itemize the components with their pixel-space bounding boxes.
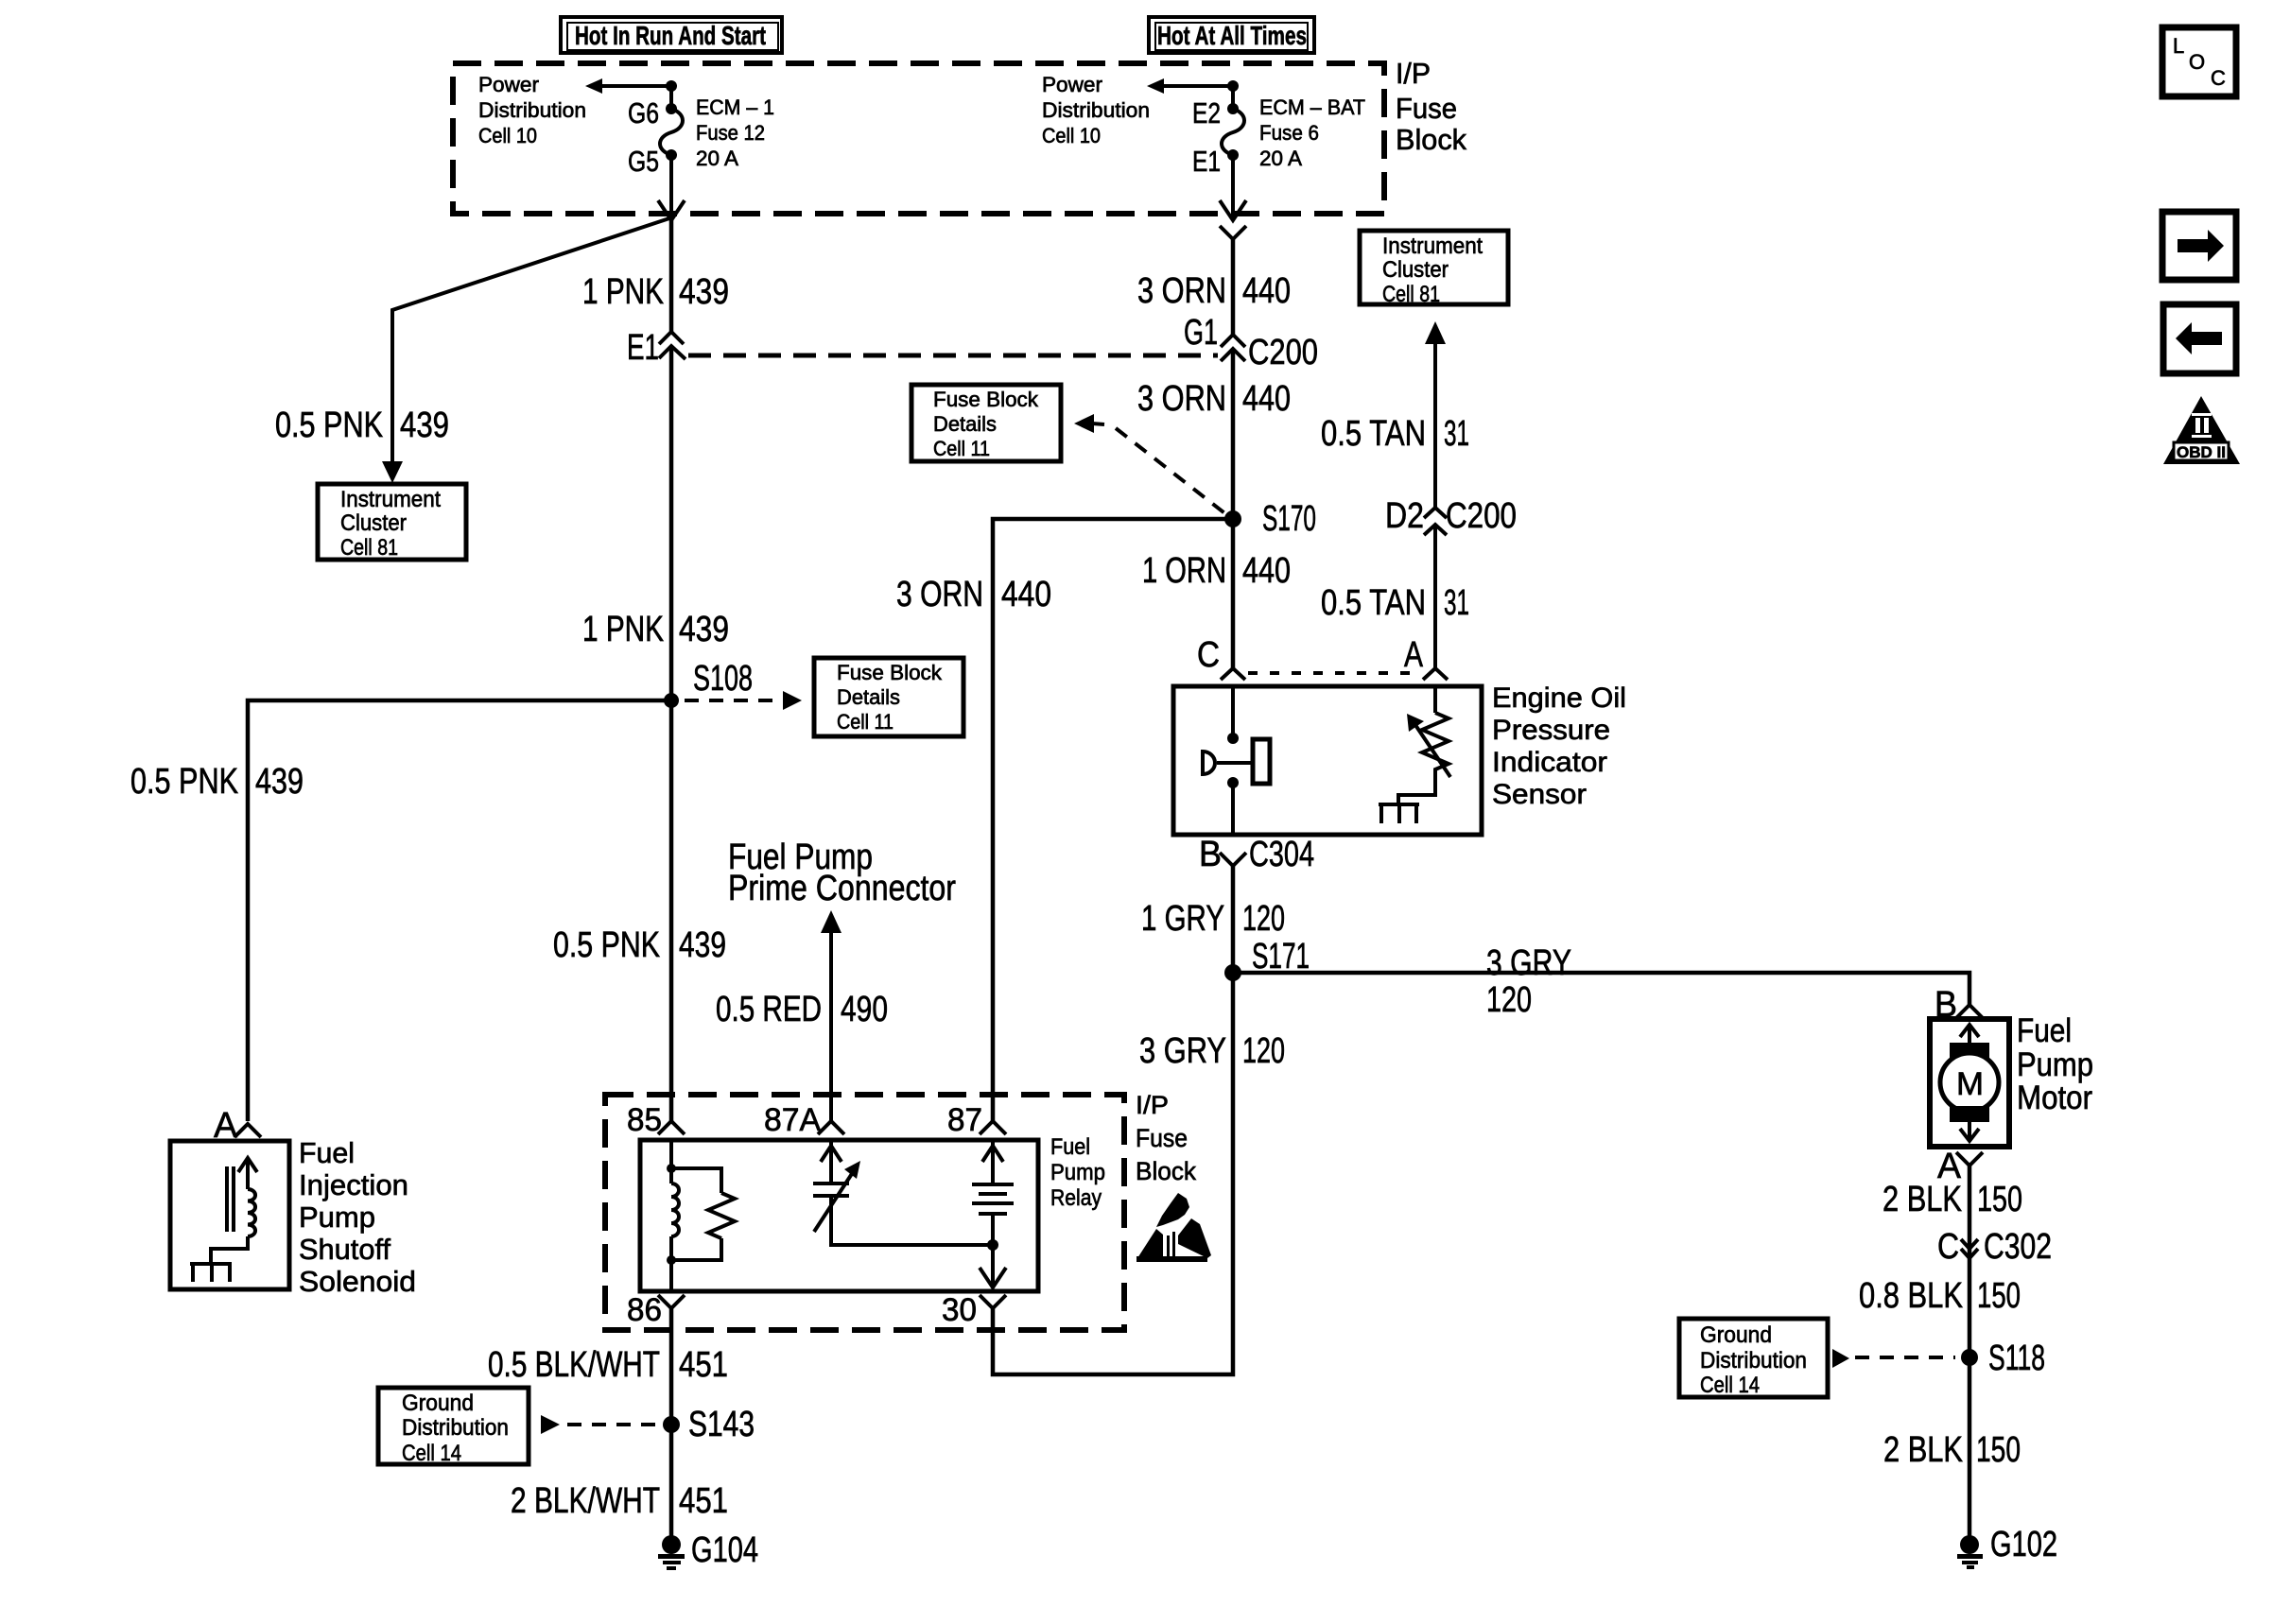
relay coil parallel resistor [671,1168,735,1260]
wire label 0.5 TAN 31 (lower) [1321,583,1469,623]
wire label 1 PNK 439 (lower) [582,610,729,649]
svg-text:G1: G1 [1184,313,1218,353]
legend right arrow box [2162,212,2236,280]
svg-text:440: 440 [1001,575,1051,614]
relay pin 87A [764,1102,844,1138]
svg-text:B: B [1199,835,1222,874]
svg-text:490: 490 [841,990,888,1029]
label Power Distribution Cell 10 (left) [478,73,586,147]
svg-text:Hot In Run And Start: Hot In Run And Start [575,21,766,50]
svg-text:439: 439 [679,610,729,649]
svg-text:Distribution: Distribution [1042,98,1150,122]
wire label 0.5 BLK/WHT 451 [488,1345,728,1385]
wire: S170 branch down to relay pin 87 [993,519,1225,1121]
svg-text:Ground: Ground [402,1391,474,1416]
svg-text:Pump: Pump [2017,1046,2093,1083]
label I/P Fuse Block (relay) [1136,1091,1196,1185]
wire label 3 GRY 120 (vertical run) [1139,1031,1285,1071]
wire: S108 down to relay pin 85 [669,700,674,1121]
wire: TAN up to instrument cluster arrow [1425,321,1446,510]
splice S108 [664,659,753,708]
svg-text:Block: Block [1136,1157,1196,1185]
wire label 3 GRY / 120 (horizontal run) [1486,943,1571,1020]
svg-text:439: 439 [400,406,449,445]
svg-text:G104: G104 [691,1530,758,1570]
relay movable contact (87A branch) [813,1140,992,1245]
wire label 3 ORN 440 (above C200) [1137,271,1291,311]
svg-text:Engine Oil: Engine Oil [1492,682,1626,714]
wire: 1 PNK 439 segment to E1 connector [669,220,674,333]
splice S143 [663,1405,755,1444]
svg-text:20 A: 20 A [1259,147,1302,170]
svg-text:150: 150 [1976,1430,2021,1470]
svg-text:D2: D2 [1385,496,1424,536]
connector G1 / C200 double chevron [1184,313,1318,372]
motor pin A [1937,1147,1983,1186]
ground G102 [1957,1525,2057,1569]
svg-text:G102: G102 [1990,1525,2057,1564]
svg-text:87: 87 [947,1102,982,1138]
svg-text:Hot At All Times: Hot At All Times [1157,21,1307,50]
svg-text:C: C [2211,66,2226,90]
svg-text:Distribution: Distribution [402,1415,509,1441]
solenoid case ground [190,1264,232,1282]
wire: feed arrow to power distribution (right) [1147,78,1239,94]
wire: 87A up to fuel pump prime connector arrow [821,910,842,1121]
wire: C200 down to S170 [1231,351,1236,519]
label Fuel Pump Motor [2017,1012,2093,1116]
splice S170 [1224,499,1316,539]
wire: S171 down and across to relay pin 30 [993,973,1233,1374]
ground G104 [658,1530,758,1570]
wire label 1 ORN 440 [1142,551,1291,591]
svg-text:Sensor: Sensor [1492,779,1587,810]
svg-text:Cell 14: Cell 14 [402,1441,461,1466]
svg-text:Solenoid: Solenoid [299,1265,416,1298]
svg-text:0.5 BLK/WHT: 0.5 BLK/WHT [488,1345,660,1385]
svg-text:0.5 PNK: 0.5 PNK [130,762,238,802]
svg-text:0.5 TAN: 0.5 TAN [1321,414,1426,454]
label ECM-1 Fuse 12 20 A [696,95,774,170]
dashed line C200 connector [688,354,1218,358]
svg-text:3 ORN: 3 ORN [1137,379,1226,419]
svg-text:E2: E2 [1192,96,1221,130]
svg-text:0.5 TAN: 0.5 TAN [1321,583,1426,623]
wire label 0.5 RED 490 [716,990,888,1029]
label ECM-BAT Fuse 6 20 A [1259,95,1365,170]
label Fuel Pump Relay [1050,1134,1105,1211]
svg-text:439: 439 [679,925,726,965]
svg-text:C304: C304 [1249,835,1314,874]
svg-text:440: 440 [1242,271,1291,311]
svg-text:2 BLK: 2 BLK [1883,1430,1963,1470]
title box: Hot In Run And Start [561,17,782,53]
svg-text:Fuse: Fuse [1396,92,1457,125]
wire: S171 to fuel pump motor [1233,973,1969,1005]
component box: Fuel Pump Relay [640,1140,1038,1291]
svg-text:Indicator: Indicator [1492,747,1607,778]
svg-text:C302: C302 [1984,1227,2052,1267]
svg-text:1 PNK: 1 PNK [582,610,664,649]
dashed pointer to S118 [1832,1349,1955,1368]
svg-text:0.5 PNK: 0.5 PNK [553,925,660,965]
wire: diagonal branch from fuse output to instrument cluster [382,218,669,483]
svg-text:OBD II: OBD II [2177,443,2226,461]
box: Fuse Block Details Cell 11 (lower) [814,658,963,736]
component box: Engine Oil Pressure Indicator Sensor [1173,686,1482,835]
svg-text:Cell 10: Cell 10 [1042,124,1101,147]
svg-text:C: C [1937,1227,1959,1267]
svg-text:120: 120 [1242,899,1285,939]
svg-text:Block: Block [1396,123,1466,156]
wire: motor A down to G102 [1968,1166,1972,1539]
svg-text:Ground: Ground [1700,1322,1772,1348]
svg-text:31: 31 [1444,583,1469,623]
svg-text:Fuse 6: Fuse 6 [1259,121,1319,145]
wire: fuse output down to G1/C200 [1231,239,1236,335]
wire label 0.5 TAN 31 (upper) [1321,414,1469,454]
legend left arrow box [2163,304,2236,373]
dashed connector face line C to A [1248,671,1420,675]
pin A of solenoid [214,1106,261,1146]
svg-text:E1: E1 [1192,145,1221,178]
svg-text:S170: S170 [1262,499,1316,539]
label Fuel Pump Prime Connector [728,838,956,908]
title box: Hot At All Times [1149,17,1314,53]
relay pin 87 [947,1102,1006,1138]
component box: Fuel Injection Pump Shutoff Solenoid [170,1141,289,1289]
svg-text:451: 451 [679,1481,728,1521]
svg-text:20 A: 20 A [696,147,738,170]
svg-text:S118: S118 [1988,1339,2045,1378]
wire label 2 BLK 150 (lower) [1883,1430,2021,1470]
box: Instrument Cluster Cell 81 (left) [318,484,466,561]
svg-text:0.5 RED: 0.5 RED [716,990,822,1029]
legend LOC box [2162,27,2236,96]
svg-text:Fuse Block: Fuse Block [933,388,1039,411]
svg-text:Fuse 12: Fuse 12 [696,121,765,145]
svg-text:150: 150 [1977,1180,2022,1219]
svg-text:0.5 PNK: 0.5 PNK [275,406,383,445]
I/P fuse block dashed box (relay) [605,1095,1124,1330]
box: Instrument Cluster Cell 81 (right) [1360,231,1508,307]
label Engine Oil Pressure Indicator Sensor [1492,682,1626,810]
wire label 1 PNK 439 (upper) [582,272,729,312]
wire: E1 down to dashed box edge with arrow [1220,155,1246,220]
wire: feed arrow to power distribution (left) [585,78,677,94]
box: Ground Distribution Cell 14 (left) [378,1388,529,1466]
svg-text:M: M [1956,1066,1984,1102]
svg-text:Injection: Injection [299,1168,408,1201]
svg-text:G6: G6 [628,96,659,130]
wire: 1 PNK 439 segment E1 to S108 [669,348,674,700]
svg-text:0.8 BLK: 0.8 BLK [1859,1276,1963,1316]
sensor pin B / C304 [1199,835,1314,874]
label Fuel Injection Pump Shutoff Solenoid [299,1136,416,1298]
svg-text:A: A [1404,635,1424,675]
svg-text:Cell 14: Cell 14 [1700,1373,1760,1398]
wire label 0.5 PNK 439 (solenoid branch) [130,762,304,802]
sensor variable resistor [1398,686,1450,804]
svg-text:87A: 87A [764,1102,821,1138]
sensor pin C [1197,635,1245,680]
svg-text:E1: E1 [627,328,659,368]
sensor pressure switch [1203,686,1270,835]
wire label 3 ORN 440 (pin 87 branch) [896,575,1051,614]
svg-text:150: 150 [1977,1276,2021,1316]
svg-text:Details: Details [837,685,900,709]
ESD warning symbol [1136,1193,1211,1262]
svg-text:O: O [2189,50,2205,74]
component box: Fuel Pump Motor [1930,1019,2009,1147]
svg-text:440: 440 [1242,551,1291,591]
svg-text:85: 85 [627,1102,662,1138]
relay coil branch [667,1140,679,1291]
wire label 2 BLK/WHT 451 [511,1481,728,1521]
label I/P Fuse Block (top right) [1396,57,1466,156]
wire label 0.8 BLK 150 [1859,1276,2021,1316]
svg-text:G5: G5 [628,145,659,178]
connector C / C302 double chevron down [1937,1227,2052,1267]
wire: D2 down to sensor pin A [1433,526,1437,667]
wire: S170 down to sensor pin C [1231,519,1236,668]
svg-text:S171: S171 [1252,937,1310,976]
wire: sensor B down to S171 [1231,866,1236,973]
svg-text:1 PNK: 1 PNK [582,272,664,312]
svg-text:Distribution: Distribution [1700,1348,1807,1373]
svg-text:Cell 81: Cell 81 [340,535,398,561]
wire label 0.5 PNK 439 (relay branch) [553,925,726,965]
svg-text:Pump: Pump [299,1201,375,1234]
svg-text:439: 439 [255,762,304,802]
relay pin 85 [627,1102,685,1138]
svg-text:Cell 11: Cell 11 [933,437,990,460]
svg-text:Relay: Relay [1050,1185,1102,1211]
svg-text:Fuel: Fuel [1050,1134,1090,1160]
svg-text:S108: S108 [693,659,753,699]
wire: relay 86 down to G104 [669,1308,674,1541]
svg-text:ECM – 1: ECM – 1 [696,95,774,119]
connector E1 / C200 double chevron [627,328,685,368]
svg-text:2 BLK: 2 BLK [1883,1180,1962,1219]
svg-text:Distribution: Distribution [478,98,586,122]
svg-text:Cell 10: Cell 10 [478,124,537,147]
svg-text:31: 31 [1444,414,1469,454]
svg-text:C200: C200 [1248,333,1318,372]
svg-text:120: 120 [1486,980,1532,1020]
svg-text:3 GRY: 3 GRY [1139,1031,1226,1071]
svg-text:Motor: Motor [2017,1080,2092,1116]
wire label 0.5 PNK 439 (diagonal branch) [275,406,449,445]
svg-text:451: 451 [679,1345,728,1385]
box: Fuse Block Details Cell 11 (upper) [911,385,1061,461]
legend OBD II triangle [2163,396,2240,464]
I/P fuse block dashed box (top) [453,63,1384,214]
motor symbol [1940,1025,1999,1141]
svg-text:L: L [2173,34,2184,58]
svg-text:Instrument: Instrument [340,487,441,512]
svg-text:Fuel: Fuel [299,1136,355,1169]
svg-text:Cell 81: Cell 81 [1382,282,1440,307]
fuse ECM-1 (G6/G5) [628,86,683,178]
svg-text:I/P: I/P [1136,1091,1169,1119]
wire label 3 ORN 440 (below C200) [1137,379,1291,419]
dashed pointer from S170 to fuse block details (upper) [1074,414,1227,515]
svg-text:439: 439 [679,272,729,312]
wire label 2 BLK 150 (upper) [1883,1180,2022,1219]
connector below fuse block (right feed) [1220,226,1246,239]
svg-text:Fuse Block: Fuse Block [837,661,943,684]
svg-text:I/P: I/P [1396,57,1431,90]
svg-text:Fuse: Fuse [1136,1124,1188,1152]
svg-text:3 GRY: 3 GRY [1486,943,1571,983]
svg-text:3 ORN: 3 ORN [1137,271,1226,311]
wire: S108 branch left and down to solenoid [248,700,671,1121]
svg-text:Cluster: Cluster [340,510,407,536]
svg-text:ECM – BAT: ECM – BAT [1259,95,1365,119]
svg-text:86: 86 [627,1292,662,1328]
sensor pin A [1404,635,1448,680]
svg-text:Pump: Pump [1050,1160,1105,1185]
relay fixed contact (87 branch) [972,1140,1014,1287]
svg-text:Pressure: Pressure [1492,715,1610,746]
sensor case ground [1379,804,1419,823]
svg-text:Cell 11: Cell 11 [837,710,894,734]
svg-text:Shutoff: Shutoff [299,1233,390,1266]
svg-text:3 ORN: 3 ORN [896,575,983,614]
dashed pointer to S143 [541,1415,656,1434]
motor pin B [1935,985,1983,1025]
svg-text:30: 30 [942,1292,977,1328]
svg-text:1 GRY: 1 GRY [1141,899,1224,939]
svg-text:C200: C200 [1446,496,1517,536]
svg-text:S143: S143 [688,1405,755,1444]
dashed pointer from S108 to fuse block details [685,691,802,710]
svg-text:C: C [1197,635,1220,675]
wire: G5 down to dashed box edge with arrow [658,155,685,220]
solenoid coil symbol [211,1158,257,1264]
svg-text:Instrument: Instrument [1382,233,1483,259]
svg-text:Cluster: Cluster [1382,257,1449,283]
connector D2 / C200 double chevron [1385,496,1517,536]
svg-text:Power: Power [1042,73,1102,96]
svg-text:1 ORN: 1 ORN [1142,551,1226,591]
svg-text:120: 120 [1242,1031,1285,1071]
svg-text:Prime Connector: Prime Connector [728,869,956,908]
box: Ground Distribution Cell 14 (right) [1679,1319,1828,1398]
svg-text:Fuel: Fuel [2017,1012,2072,1049]
wire label 1 GRY 120 [1141,899,1285,939]
svg-text:Details: Details [933,412,997,436]
label Power Distribution Cell 10 (right) [1042,73,1150,147]
splice S118 [1961,1339,2045,1378]
svg-text:Power: Power [478,73,539,96]
fuse ECM-BAT (E2/E1) [1192,86,1244,178]
relay pin 30 [942,1292,1006,1328]
svg-text:440: 440 [1242,379,1291,419]
relay pin 86 [627,1292,685,1328]
splice S171 [1224,937,1310,981]
svg-text:2 BLK/WHT: 2 BLK/WHT [511,1481,660,1521]
